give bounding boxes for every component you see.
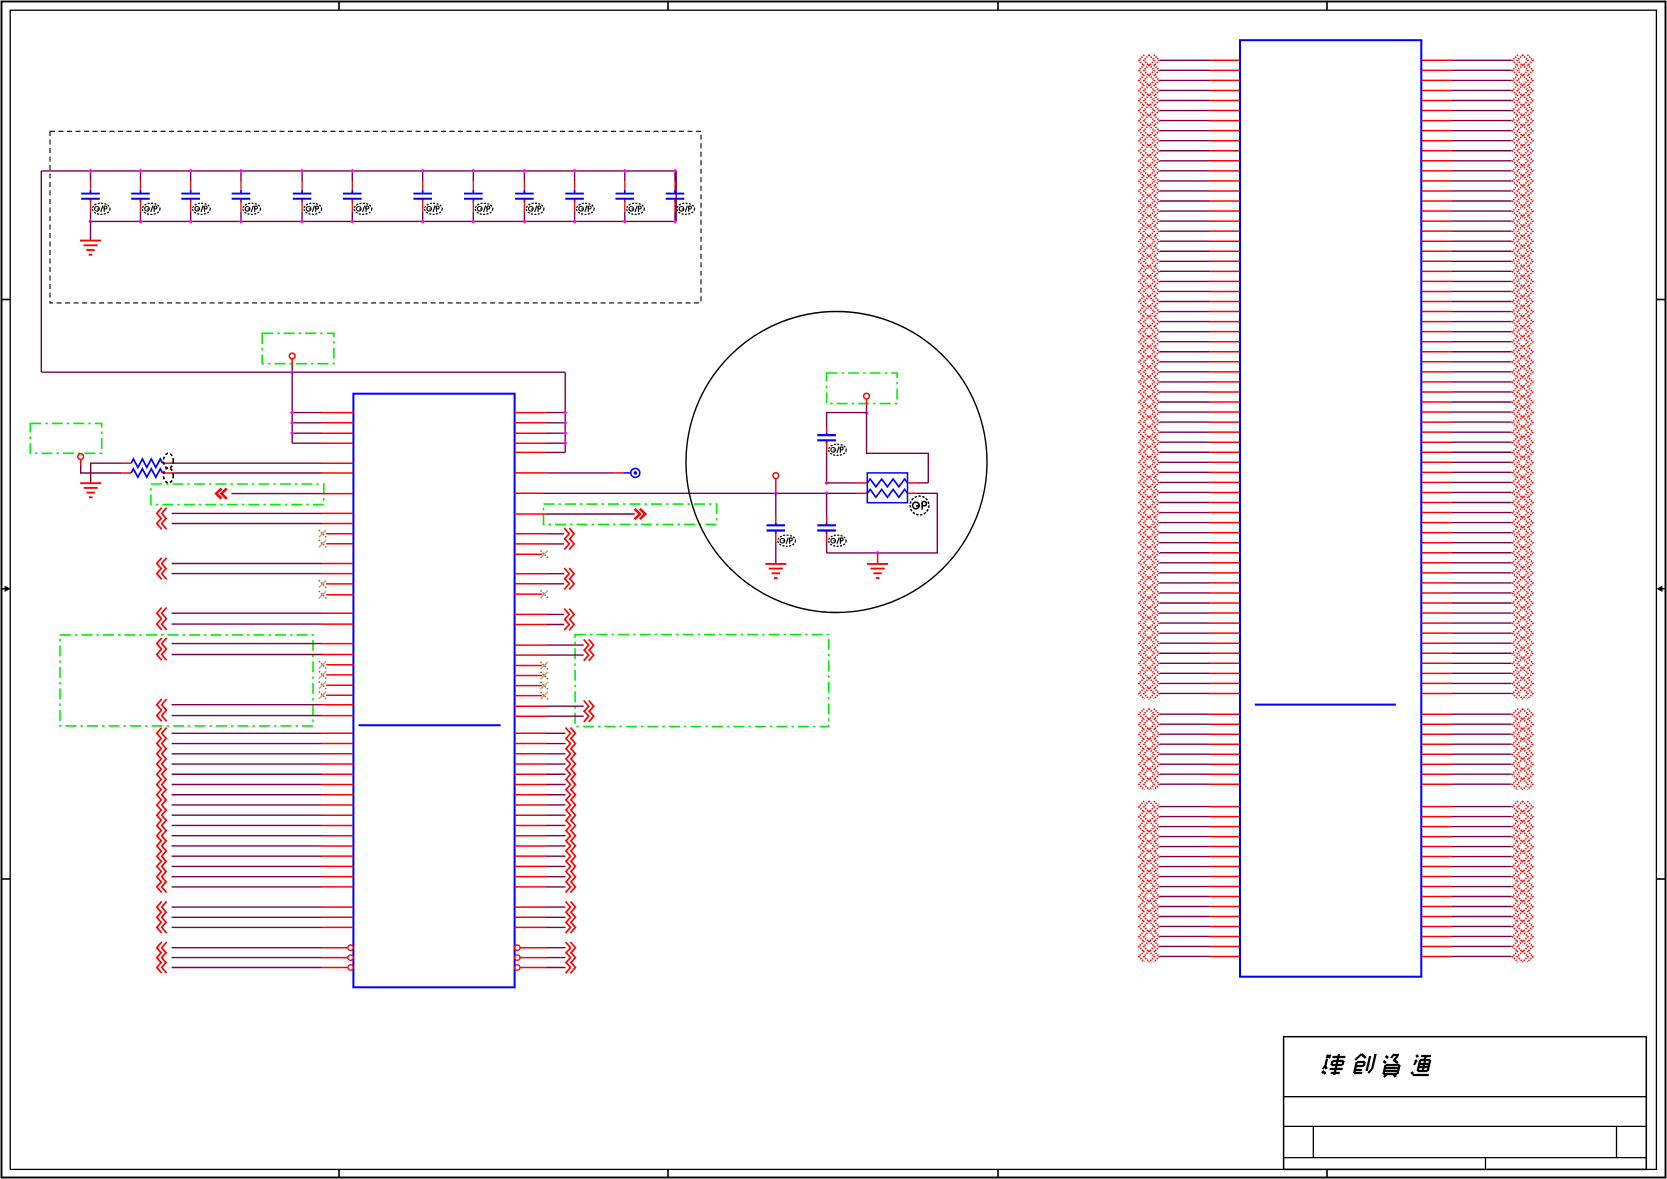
wire U2 left bus pin A [1160,612,1209,614]
wire U2 right bus pin A [1421,130,1452,132]
junction C7 bottom [421,219,425,223]
wire U2 left bus pin B [1160,713,1209,715]
wire U2 right bus pin A [1421,632,1452,634]
wire U2 right bus pin A [1421,502,1452,504]
wire U2 right bus pin A [1421,89,1452,91]
wire U2 left bus pin A [1160,361,1209,363]
wire U2 left bus pin A [1160,552,1209,554]
wire U2 right bus pin C [1421,915,1452,917]
wire U2 left bus pin B [1160,733,1209,735]
wire port VCC stub [291,359,293,365]
wire U2 right bus pin B [1421,723,1452,725]
no-connect U1 left pin [326,684,353,686]
wire port to lower resistor [81,460,121,474]
port RC input [78,454,84,460]
wire U2 left bus pin A [1160,79,1209,81]
capacitor C13 [826,427,828,433]
wire U1 left bus pin [157,738,167,749]
wire U1 left bus pin [157,789,167,800]
wire U1 right signal pin (into block) [515,705,547,707]
ground (cap bank) [80,240,101,242]
wire U1 left bus pin [157,769,167,780]
wire U1 right bus pin [515,794,547,796]
border center arrow right [1662,588,1666,590]
wire U1 right power pin 1 [515,412,547,414]
ground (GP network left) [765,563,786,565]
wire U2 right bus pin A [1421,682,1452,684]
wire U2 left bus pin C [1160,816,1209,818]
wire U2 right bus pin A [1421,311,1452,313]
wire port GP stub [866,399,868,406]
wire U2 right bus pin A [1421,401,1452,403]
wire U1 right signal pin (into block) [515,654,547,656]
wire VCC left vertical drop [40,171,42,372]
capacitor C9 [523,171,525,182]
wire U2 right bus pin A [1421,361,1452,363]
wire U1 right power pin 5 [515,451,547,453]
wire U2 left bus pin A [1160,59,1209,61]
wire U1 left inverted pin [157,952,167,963]
junction C2 bottom [138,219,142,223]
wire U1 left power pin 3 [292,432,321,434]
IC U1 body [353,394,514,988]
dashed enclosure box (cap bank) [50,131,701,303]
wire U2 left bus pin A [1160,391,1209,393]
signal box (left arrow net) [151,484,324,505]
wire U1 right bus pin [515,845,547,847]
wire U1 left bus pin [157,728,167,739]
wire U1 right bus pin [515,784,547,786]
wire U2 right bus pin A [1421,140,1452,142]
wire U2 right bus pin B [1421,773,1452,775]
wire U2 right bus pin A [1421,441,1452,443]
title block cell divider b [1616,1126,1618,1157]
wire U2 left bus pin C [1160,806,1209,808]
junction C10 bottom [572,219,576,223]
border zone ticks right [1656,299,1665,301]
wire U1 right bus pin [515,865,547,867]
wire U2 left bus pin A [1160,130,1209,132]
wire U1 left signal pin [157,699,167,710]
no-connect U1 right pin [515,675,542,677]
wire GP feed right branch [867,413,929,483]
ground (GP network right) [867,563,888,565]
junction C8 bottom [471,219,475,223]
wire U2 left bus pin A [1160,421,1209,423]
ground (RC network) [80,482,101,484]
wire U2 left bus pin A [1160,331,1209,333]
wire U2 right bus pin A [1421,692,1452,694]
wire U1 left signal pin [157,608,167,619]
capacitor C4 [240,171,242,182]
wire U2 left bus pin C [1160,826,1209,828]
wire U2 right bus pin A [1421,120,1452,122]
wire U2 right bus pin A [1421,652,1452,654]
company name text (Wistron) [1321,1054,1434,1077]
title block row line 2 [1284,1125,1647,1127]
wire U2 left bus pin C [1160,925,1209,927]
no-connect U1 right pin [515,553,542,555]
no-connect U1 left pin [326,543,353,545]
wire U2 right bus pin A [1421,562,1452,564]
wire U2 left bus pin A [1160,451,1209,453]
border zone ticks bottom [338,1169,340,1177]
wire U2 left bus pin A [1160,311,1209,313]
wire U1 right power pin 2 [515,422,547,424]
wire U2 right bus pin C [1421,816,1452,818]
wire U2 right bus pin B [1421,743,1452,745]
wire U1 left bus pin [157,820,167,831]
junction C11 bottom [623,219,627,223]
wire U2 left bus pin A [1160,100,1209,102]
wire U2 left bus pin B [1160,753,1209,755]
wire U2 left bus pin A [1160,562,1209,564]
wire U2 right bus pin A [1421,582,1452,584]
capacitor C3 [190,171,192,182]
wire U1 right bus pin [515,773,547,775]
wire U2 left bus pin A [1160,572,1209,574]
capacitor C8 [472,171,474,182]
wire U2 left bus pin A [1160,220,1209,222]
wire U2 right bus pin A [1421,69,1452,71]
wire U2 left bus pin A [1160,632,1209,634]
wire R4 to bottom rail [827,493,938,553]
wire GP feed left branch [827,413,867,427]
off-page bus arrows U2 right group B [1512,709,1533,790]
no-connect U1 left pin [326,533,353,535]
junction C12 bottom [673,219,677,223]
wire U1 right signal pin [515,573,547,575]
junction left power bus [290,410,294,414]
junction C4 bottom [239,219,243,223]
title block outer box [1284,1037,1647,1170]
wire U1 right signal pin (into block) [515,644,547,646]
wire U2 right bus pin A [1421,190,1452,192]
wire U2 right bus pin A [1421,270,1452,272]
hierarchical port box (GP) [827,373,898,404]
wire U2 right bus pin A [1421,240,1452,242]
wire U2 left bus pin A [1160,290,1209,292]
wire U1 right bus pin [515,753,547,755]
junction C2 top [138,169,142,173]
junction C1 top [88,169,92,173]
wire U1 right signal pin [515,533,547,535]
capacitor C10 [574,171,576,182]
wire U2 left bus pin B [1160,743,1209,745]
no-connect U1 right pin [515,665,542,667]
wire U2 right bus pin A [1421,351,1452,353]
wire VCC bus left of U1 [291,372,293,443]
wire U2 left bus pin A [1160,301,1209,303]
IC U1 section divider [359,724,501,726]
title block cell divider c [1485,1158,1487,1170]
wire U1 right power pin 4 [515,442,547,444]
wire U1 left bus pin [157,881,167,892]
junction C11 top [623,169,627,173]
wire U2 left bus pin C [1160,945,1209,947]
wire U2 left bus pin A [1160,682,1209,684]
wire U1 right signal pin [515,613,547,615]
wire U1 right bus pin [515,743,547,745]
wire U2 left bus pin A [1160,491,1209,493]
junction left power bus [290,431,294,435]
wire U1 right inverted pin [515,945,520,950]
wire U2 right bus pin B [1421,753,1452,755]
junction resistor top-left [824,481,828,485]
wire U2 right bus pin B [1421,783,1452,785]
wire U2 left bus pin C [1160,866,1209,868]
capacitor C1 [90,171,92,182]
wire U2 left bus pin A [1160,642,1209,644]
wire U1 left bus pin [157,758,167,769]
wire U2 left bus pin C [1160,935,1209,937]
wire test point stub [775,479,777,494]
capacitor C12 [674,171,676,182]
wire U2 left bus pin A [1160,502,1209,504]
wire ground stub GP [877,553,879,564]
wire U2 left bus pin A [1160,652,1209,654]
wire U1 left inverted pin [157,962,167,973]
no-connect U1 right pin [515,695,542,697]
wire U1 to GP network (long net) [515,492,544,494]
wire U2 right bus pin A [1421,290,1452,292]
wire U2 right bus pin A [1421,59,1452,61]
wire U2 right bus pin C [1421,846,1452,848]
wire U1 left bus pin [157,851,167,862]
capacitor C6 [351,171,353,182]
wire U2 left bus pin C [1160,896,1209,898]
wire U2 right bus pin A [1421,210,1452,212]
wire U2 left bus pin A [1160,280,1209,282]
wire U1 left bus pin [157,861,167,872]
wire U1 right pin [515,906,547,908]
wire U1 left bus pin [157,779,167,790]
wire U1 left bus pin [157,830,167,841]
wire U1 right bus pin [515,886,547,888]
wire U2 right bus pin A [1421,331,1452,333]
junction C9 bottom [522,219,526,223]
wire VCC horizontal feed [41,371,565,373]
resistor R1 [121,462,131,464]
wire U2 right bus pin A [1421,552,1452,554]
wire U2 left bus pin A [1160,512,1209,514]
wire U2 left bus pin A [1160,371,1209,373]
junction C7 top [421,169,425,173]
junction C4 top [239,169,243,173]
wire U2 right bus pin A [1421,451,1452,453]
wire U2 left bus pin A [1160,240,1209,242]
wire U2 right bus pin A [1421,220,1452,222]
wire U2 left bus pin A [1160,592,1209,594]
capacitor C5 [301,171,303,182]
junction C5 top [300,169,304,173]
wire U2 right bus pin A [1421,512,1452,514]
wire U2 right bus pin A [1421,461,1452,463]
wire U1 left bus pin [157,871,167,882]
wire U2 right bus pin A [1421,612,1452,614]
wire U2 right bus pin C [1421,836,1452,838]
junction C12 top [673,169,677,173]
wire U2 right bus pin C [1421,925,1452,927]
wire right end of cap bank [675,171,677,222]
wire U2 left bus pin A [1160,481,1209,483]
wire U2 left bus pin A [1160,672,1209,674]
off-page arrow left (<<) [216,488,227,498]
wire U1 right inverted pin [515,965,520,970]
wire U1 right pin [515,926,547,928]
wire U2 right bus pin C [1421,806,1452,808]
wire U2 right bus pin A [1421,471,1452,473]
off-page bus arrows U2 right group C [1512,801,1533,962]
wire U2 right bus pin A [1421,592,1452,594]
resistor R2 [121,472,131,474]
wire U2 left bus pin A [1160,381,1209,383]
wire U2 right bus pin B [1421,763,1452,765]
no-connect U1 left pin [326,694,353,696]
wire U2 left bus pin A [1160,110,1209,112]
wire U1 left power pin 2 [292,422,321,424]
wire U1 left pin [157,912,167,923]
title block row line 3 [1284,1157,1647,1159]
border center arrow left [2,588,6,590]
wire U2 right bus pin A [1421,532,1452,534]
wire U1 right bus pin [515,814,547,816]
wire U2 right bus pin A [1421,542,1452,544]
wire U2 right bus pin A [1421,481,1452,483]
wire U1 right bus pin [515,835,547,837]
GP symbol [910,496,929,515]
wire U2 right bus pin A [1421,491,1452,493]
junction long net / cap [824,491,828,495]
detail circle [686,312,987,613]
wire U1 left signal pin [157,518,167,529]
wire U2 right bus pin A [1421,200,1452,202]
junction right power bus [563,441,567,445]
no-connect U1 right pin [515,685,542,687]
wire U1 left bus pin [157,748,167,759]
no-connect U1 left pin [326,674,353,676]
wire U2 right bus pin B [1421,733,1452,735]
wire U1 left signal pin [157,710,167,721]
wire U2 right bus pin A [1421,321,1452,323]
wire R2 to U1 pin [173,472,321,474]
wire U2 left bus pin B [1160,723,1209,725]
wire U2 right bus pin A [1421,431,1452,433]
wire U2 left bus pin A [1160,602,1209,604]
wire U2 right bus pin A [1421,642,1452,644]
wire U2 right bus pin A [1421,371,1452,373]
wire U2 right bus pin A [1421,421,1452,423]
wire U1 left signal pin [157,618,167,629]
wire U2 right bus pin A [1421,662,1452,664]
capacitor C7 [422,171,424,182]
wire U1 left bus pin [157,799,167,810]
wire VCC bus right of U1 [564,372,566,452]
wire U2 left bus pin A [1160,441,1209,443]
wire U2 right bus pin C [1421,935,1452,937]
wire U2 right bus pin C [1421,866,1452,868]
junction C3 bottom [189,219,193,223]
junction VCC feed [290,370,294,374]
wire U2 right bus pin C [1421,856,1452,858]
wire U2 left bus pin C [1160,836,1209,838]
wire U1 right bus pin [515,876,547,878]
junction right power bus [563,421,567,425]
net-tie oval R2 [164,468,174,483]
wire U2 right bus pin A [1421,100,1452,102]
wire U1 left power pin 1 [292,412,321,414]
wire U2 left bus pin A [1160,321,1209,323]
junction C10 top [572,169,576,173]
off-page bus arrows U2 right group A [1512,55,1533,699]
wire U2 right bus pin C [1421,955,1452,957]
wire U2 right bus pin C [1421,826,1452,828]
border zone ticks left [2,299,11,301]
wire U2 left bus pin A [1160,250,1209,252]
wire U2 left bus pin A [1160,351,1209,353]
junction C5 bottom [300,219,304,223]
hierarchical block box left [60,635,313,726]
wire U2 right bus pin A [1421,150,1452,152]
wire U1 left signal pin [157,508,167,519]
wire U2 left bus pin A [1160,341,1209,343]
hierarchical block box right [575,635,829,727]
wire U1 right power pin 3 [515,432,547,434]
wire U2 left bus pin A [1160,431,1209,433]
junction left power bus [290,421,294,425]
wire U2 right bus pin A [1421,110,1452,112]
resistor R3 [827,482,858,484]
wire U2 left bus pin B [1160,773,1209,775]
wire U2 right bus pin A [1421,341,1452,343]
wire U1 left power pin 4 [292,442,321,444]
wire ground branch upper resistor [91,463,121,483]
wire U2 right bus pin C [1421,886,1452,888]
off-page bus arrows U2 left group A [1139,55,1160,699]
junction C6 top [350,169,354,173]
wire U1 left bus pin [157,840,167,851]
wire U2 left bus pin A [1160,160,1209,162]
wire U1 left inverted pin [157,942,167,953]
wire U1 left signal pin [157,649,167,660]
wire U2 left bus pin C [1160,955,1209,957]
off-page arrow right (>>) [515,513,547,515]
wire U2 right bus pin A [1421,622,1452,624]
junction C9 top [522,169,526,173]
wire U2 left bus pin C [1160,846,1209,848]
wire U2 left bus pin A [1160,461,1209,463]
wire U1 right inverted pin [515,955,520,960]
hierarchical port box (RC input) [30,423,101,453]
title block row line 1 [1284,1096,1647,1098]
wire U2 left bus pin C [1160,915,1209,917]
wire U2 left bus pin A [1160,120,1209,122]
wire U2 left bus pin A [1160,542,1209,544]
no-connect U1 left pin [326,664,353,666]
wire U2 right bus pin A [1421,170,1452,172]
wire U2 left bus pin A [1160,692,1209,694]
wire U2 left bus pin A [1160,270,1209,272]
no-connect U1 right pin [515,593,542,595]
net target symbol [631,468,640,477]
IC U2 section divider [1255,704,1396,706]
wire U2 left bus pin A [1160,210,1209,212]
wire U1 right pin [515,916,547,918]
off-page bus arrows U2 left group B [1139,709,1160,790]
wire U2 right bus pin A [1421,411,1452,413]
capacitor C11 [624,171,626,182]
wire U1 right signal pin [515,543,547,545]
